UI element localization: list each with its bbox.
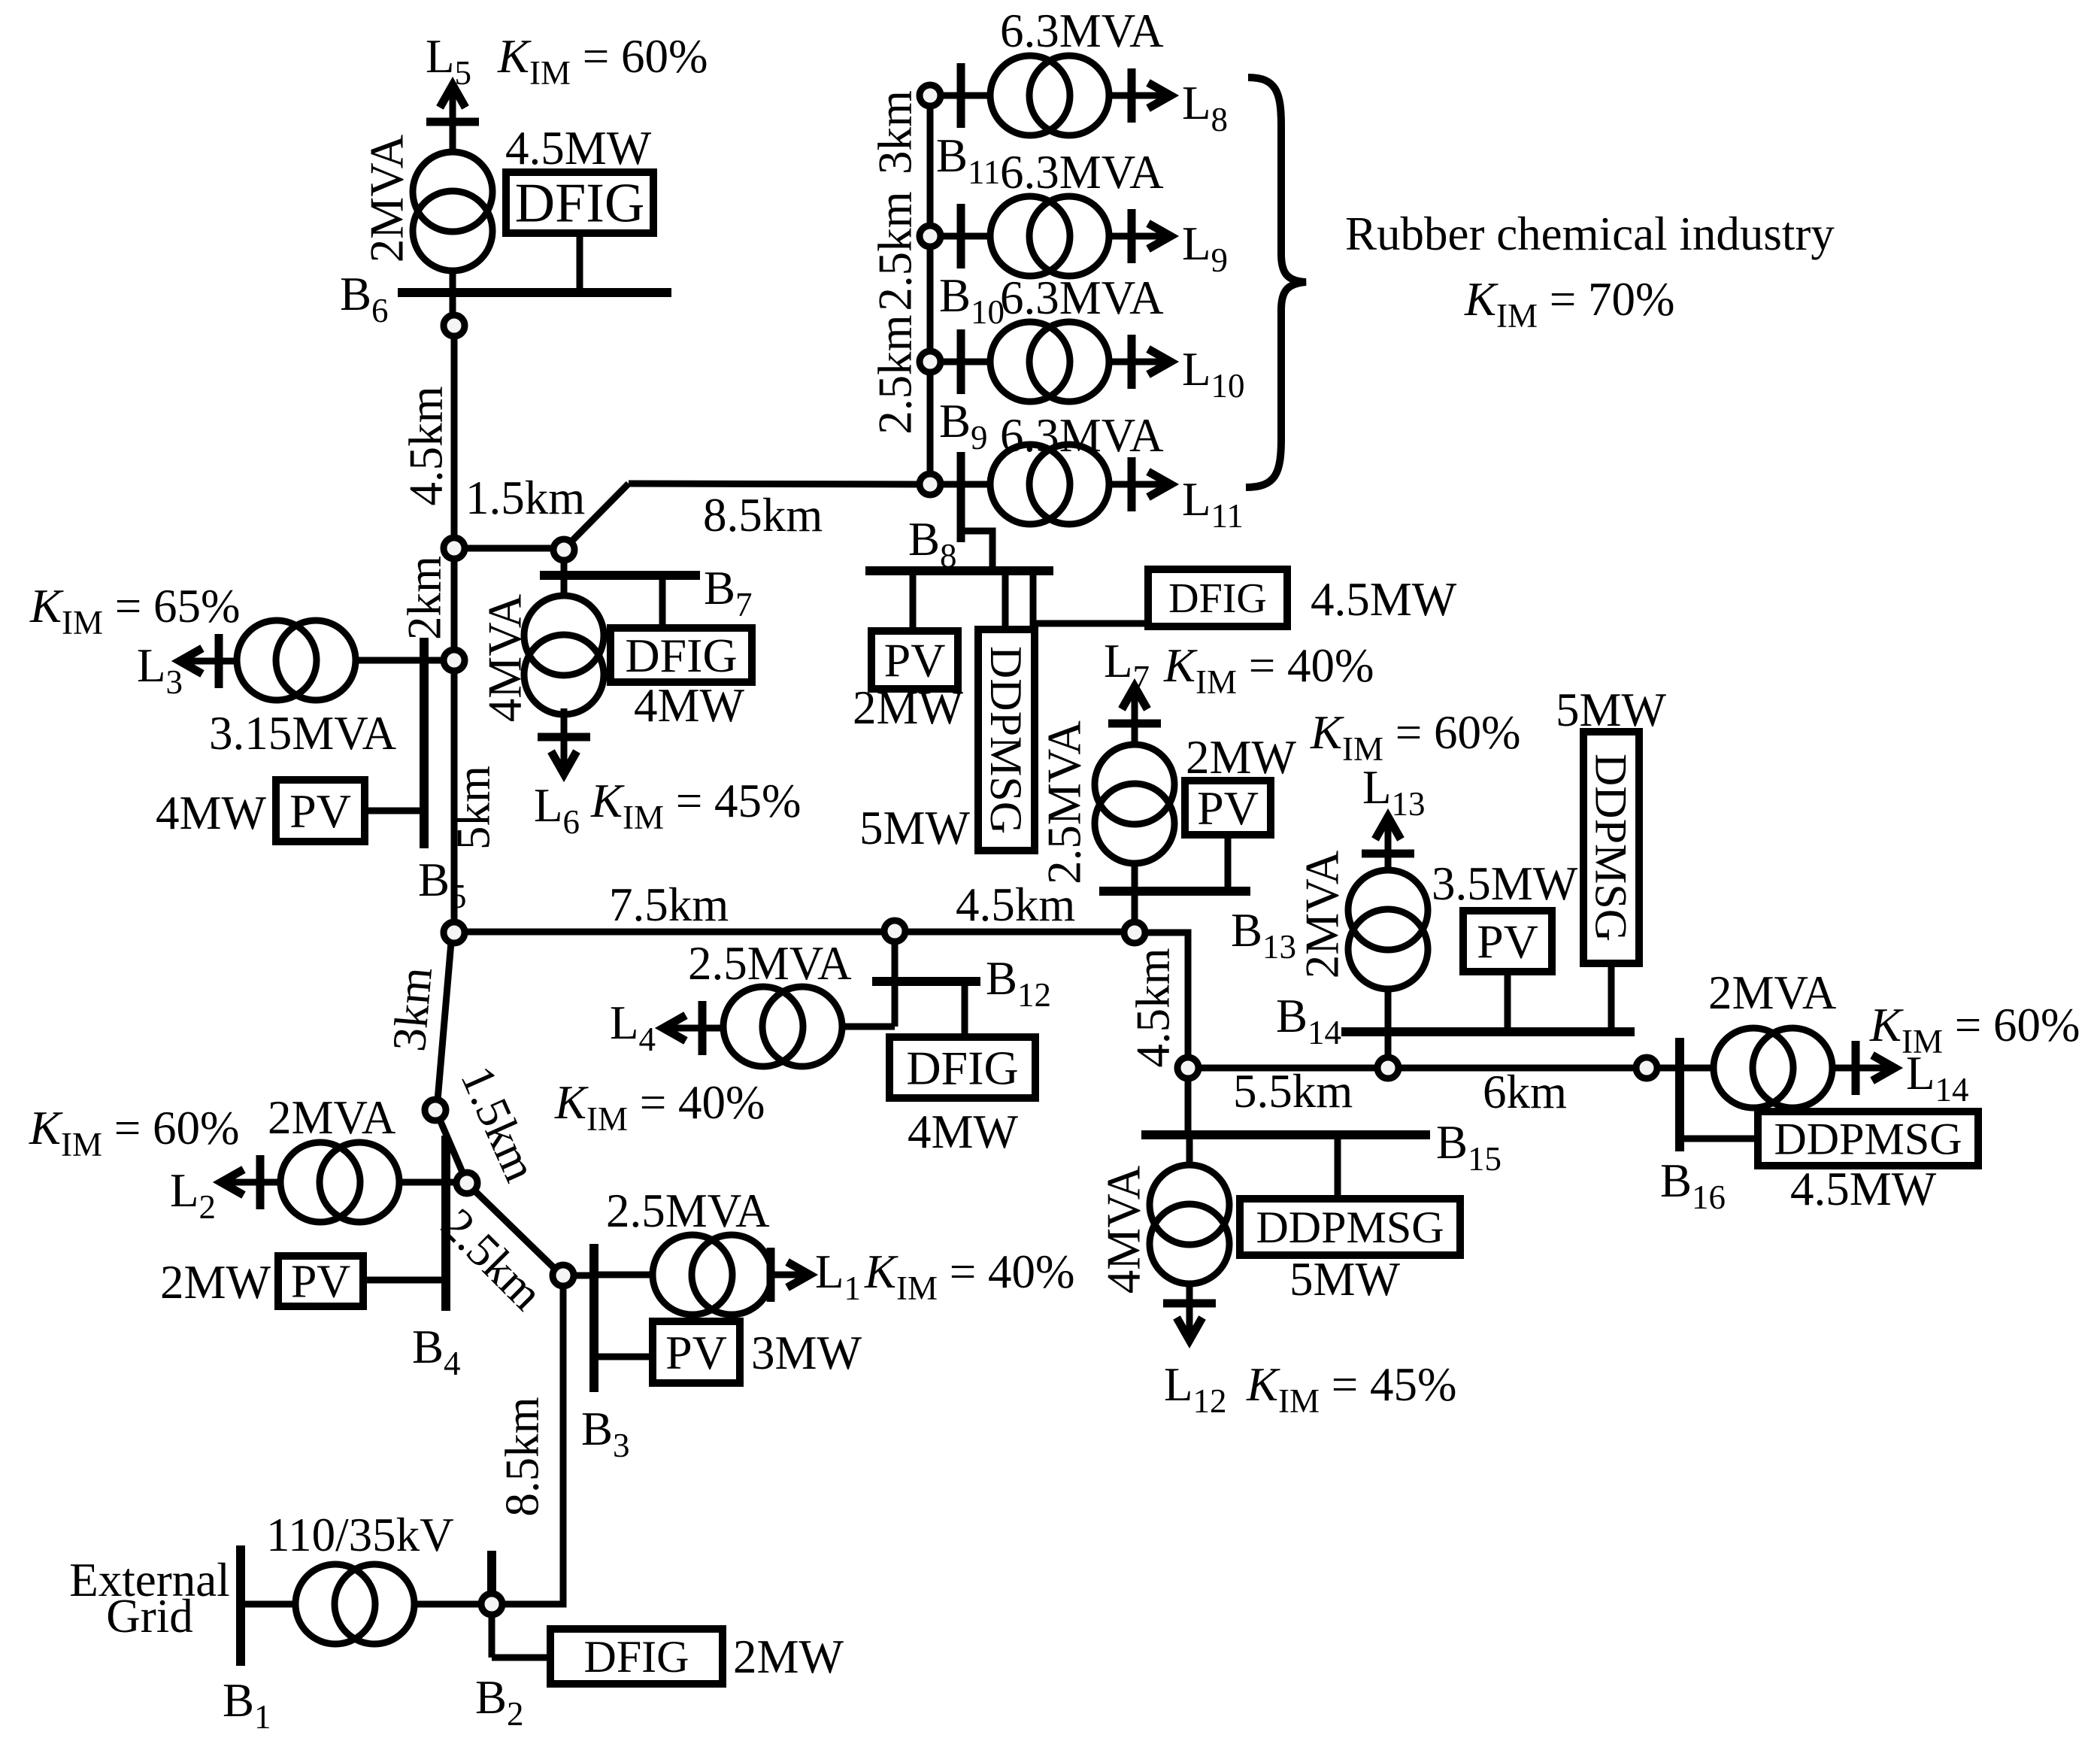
svg-text:L6: L6 — [534, 779, 580, 841]
transformer T15 4MVA — [1150, 1165, 1229, 1245]
bus tick row L8 — [957, 63, 965, 128]
generator DFIG box at B6 — [506, 172, 653, 233]
load L8 (arrow right) — [1108, 93, 1165, 99]
svg-text:B1: B1 — [223, 1674, 271, 1736]
node J6 — [1124, 922, 1145, 943]
wire B8 feeder segment 2.5km upper — [927, 247, 934, 351]
svg-text:DFIG: DFIG — [583, 1632, 689, 1682]
wire B5 bus to T3 — [355, 657, 420, 664]
load L7 (arrow up) — [1132, 690, 1138, 743]
bus B13 — [1099, 887, 1250, 896]
svg-text:B5: B5 — [418, 854, 467, 915]
svg-text:B14: B14 — [1276, 990, 1341, 1051]
node J4 — [884, 921, 905, 942]
node J6b at B4 — [456, 1172, 477, 1194]
transformer T-L8 6.3MVA — [990, 56, 1070, 135]
svg-text:8.5km: 8.5km — [495, 1397, 548, 1516]
transformer T16 2MVA (L14) — [1714, 1028, 1793, 1108]
svg-text:B9: B9 — [939, 395, 988, 456]
bus B15 — [1141, 1130, 1430, 1139]
svg-text:PV: PV — [291, 1257, 350, 1308]
load L1 (arrow right) — [771, 1272, 805, 1278]
generator DDPMSG box at B14 — [1583, 732, 1639, 963]
bus B3 — [589, 1244, 598, 1392]
wire J8 to B15 bus — [1185, 1078, 1192, 1135]
bus tick row L11 — [957, 452, 965, 542]
wire DFIG-to-B6 bus — [577, 233, 583, 293]
transformer T-L9 6.3MVA — [990, 196, 1070, 276]
bus B6 — [398, 288, 671, 297]
svg-text:6.3MVA: 6.3MVA — [1000, 146, 1164, 199]
svg-text:4.5km: 4.5km — [1126, 948, 1179, 1067]
svg-text:PV: PV — [884, 633, 946, 687]
svg-text:2MVA: 2MVA — [268, 1091, 396, 1144]
transformer T6 2MVA (B6-L5) — [413, 152, 492, 232]
node B16 junction — [1636, 1057, 1657, 1078]
svg-text:KIM = 40%: KIM = 40% — [1163, 639, 1374, 701]
generator DDPMSG box at B16 — [1758, 1112, 1978, 1166]
wire DDPMSG-to-B14 bus — [1608, 963, 1615, 1032]
svg-text:6km: 6km — [1483, 1066, 1567, 1118]
svg-text:L13: L13 — [1362, 761, 1425, 823]
node B11 feeder — [920, 85, 941, 106]
node J5 — [425, 1100, 446, 1121]
svg-text:L11: L11 — [1182, 473, 1244, 535]
node J1 — [444, 538, 465, 559]
svg-text:6.3MVA: 6.3MVA — [1000, 409, 1164, 462]
svg-text:Grid: Grid — [106, 1590, 192, 1642]
svg-text:4MW: 4MW — [908, 1106, 1019, 1158]
svg-text:3MW: 3MW — [751, 1327, 862, 1379]
svg-text:2MW: 2MW — [1186, 731, 1297, 784]
svg-text:L12: L12 — [1164, 1358, 1226, 1420]
wire T-L4 to J4 stem — [841, 1024, 895, 1030]
wire 2.5km diagonal (J6b-J7) — [474, 1191, 556, 1269]
bus B5 — [420, 638, 429, 848]
wire B3 bus to T-L1 — [594, 1272, 653, 1278]
svg-text:1.5km: 1.5km — [465, 472, 585, 524]
transformer T13 2.5MVA (L7) — [1095, 745, 1174, 824]
svg-text:110/35kV: 110/35kV — [266, 1509, 454, 1561]
wire feeder 2km (J1-J2) — [451, 559, 458, 650]
svg-text:KIM = 60%: KIM = 60% — [497, 30, 708, 92]
svg-text:L3: L3 — [137, 639, 183, 701]
wire B2 tap to DFIG — [492, 1655, 550, 1661]
transformer T3 3.15MVA (L3) — [237, 620, 317, 700]
transformer T-L10 6.3MVA — [990, 322, 1070, 402]
generator PV box at B13 — [1185, 781, 1271, 835]
svg-text:4.5MW: 4.5MW — [1790, 1163, 1937, 1215]
svg-text:B16: B16 — [1660, 1154, 1726, 1216]
wire DFIG-to-B7 bus — [659, 575, 666, 628]
wire J7 to B3 bus — [574, 1272, 594, 1279]
svg-text:PV: PV — [665, 1326, 727, 1379]
node J1b — [553, 539, 574, 560]
wire B15 bus to T15 — [1186, 1135, 1193, 1166]
generator PV box at B14 — [1463, 911, 1552, 972]
svg-text:2.5MVA: 2.5MVA — [606, 1184, 770, 1237]
svg-text:2MW: 2MW — [160, 1256, 271, 1309]
generator DFIG box at B7 — [611, 628, 752, 682]
svg-text:8.5km: 8.5km — [703, 489, 823, 541]
wire J4 to T-L4 level — [892, 942, 898, 1027]
wire J2 to B5 bus — [424, 657, 444, 664]
svg-text:DFIG: DFIG — [625, 629, 737, 682]
svg-text:Rubber chemical industry: Rubber chemical industry — [1345, 208, 1835, 260]
wire T13 to B13 bus — [1132, 863, 1138, 891]
wire node to T-L8 — [941, 93, 991, 99]
node L13 junction — [1377, 1057, 1398, 1078]
transformer T-L1 2.5MVA — [653, 1235, 732, 1315]
svg-text:L8: L8 — [1182, 77, 1228, 138]
wire DFIG-to-B12 bus — [962, 981, 968, 1037]
svg-text:DFIG: DFIG — [515, 173, 645, 235]
svg-text:3.5MW: 3.5MW — [1432, 857, 1578, 910]
wire B13 bus to node J6 — [1132, 891, 1138, 922]
wire J6 corner to J8 — [1145, 933, 1188, 1057]
transformer T-L4 2.5MVA — [723, 987, 803, 1066]
wire B8 feeder segment 3km — [927, 106, 934, 226]
wire PV-to-B14 bus — [1505, 972, 1511, 1032]
transformer T14 2MVA (L13) — [1348, 870, 1428, 950]
svg-text:6.3MVA: 6.3MVA — [1000, 5, 1164, 57]
wire feeder 5km (J2-J3) — [451, 671, 458, 922]
wire DDPMSG-to-B8 bus — [1002, 571, 1009, 629]
svg-text:PV: PV — [1477, 914, 1538, 968]
wire diagonal J1b to 8.5km line — [569, 484, 629, 544]
svg-text:2.5MVA: 2.5MVA — [688, 937, 852, 990]
bus B7 — [540, 571, 700, 580]
wire PV-to-B4 bus — [363, 1277, 446, 1284]
wire node to T-L11 — [941, 481, 991, 488]
brace rubber chemical industry — [1246, 77, 1306, 487]
wire 8.5km line to B8 feeder node — [629, 484, 920, 484]
wire 1.5km diagonal (J5-J6b) — [440, 1120, 463, 1174]
svg-text:5.5km: 5.5km — [1233, 1065, 1353, 1118]
svg-text:2MVA: 2MVA — [360, 134, 413, 262]
svg-text:2MVA: 2MVA — [1295, 850, 1348, 978]
wire feeder 4.5km (J0-J1) — [451, 336, 458, 538]
node J3 — [444, 922, 465, 943]
bus B12 — [872, 977, 980, 986]
wire DDPMSG-to-B15 bus — [1335, 1135, 1341, 1199]
transformer T7 4MVA (B7) — [524, 596, 604, 675]
svg-text:L10: L10 — [1182, 343, 1244, 405]
wire PV-to-B5 bus — [365, 808, 420, 814]
svg-text:KIM = 65%: KIM = 65% — [29, 580, 241, 642]
svg-text:B3: B3 — [581, 1403, 630, 1464]
node B9 feeder — [920, 351, 941, 372]
svg-text:KIM = 40%: KIM = 40% — [554, 1076, 765, 1138]
svg-text:3km: 3km — [383, 965, 442, 1054]
wire T6-to-B6 bus — [450, 271, 456, 293]
svg-text:7.5km: 7.5km — [609, 878, 729, 931]
generator DFIG box at B12 — [889, 1037, 1035, 1098]
svg-text:3km: 3km — [868, 90, 921, 174]
svg-text:L7: L7 — [1104, 635, 1150, 696]
wire 3km diagonal (J3-J5) — [438, 942, 451, 1100]
wire 5.5km line — [1198, 1065, 1377, 1072]
svg-text:B11: B11 — [936, 129, 1000, 191]
svg-text:DDPMSG: DDPMSG — [1256, 1203, 1444, 1252]
node B8 feeder — [920, 474, 941, 495]
wire B6 bus to node J0 — [450, 293, 456, 316]
svg-text:B4: B4 — [412, 1321, 461, 1382]
svg-text:B12: B12 — [986, 952, 1051, 1014]
node B10 feeder — [920, 226, 941, 247]
generator DFIG box at B2 — [550, 1629, 723, 1684]
svg-text:PV: PV — [289, 784, 351, 838]
svg-text:DFIG: DFIG — [906, 1041, 1018, 1094]
svg-text:L1: L1 — [815, 1245, 861, 1307]
svg-text:4MVA: 4MVA — [478, 593, 531, 722]
bus B2 tick — [487, 1551, 496, 1594]
svg-text:5MW: 5MW — [1289, 1253, 1401, 1306]
svg-text:DDPMSG: DDPMSG — [981, 646, 1031, 834]
wire T14 to node through B14 bus — [1385, 988, 1392, 1057]
svg-text:B6: B6 — [340, 268, 389, 329]
wire B8 feeder segment 2.5km lower — [927, 372, 934, 474]
wire B4 bus to T2 — [399, 1179, 446, 1186]
bus B1 — [236, 1545, 245, 1666]
load L5 (arrow up) — [450, 89, 456, 150]
node J7 at B3 — [553, 1265, 574, 1286]
svg-text:KIM = 60%: KIM = 60% — [1869, 999, 2080, 1060]
load L4 (arrow left) — [668, 1025, 724, 1032]
svg-text:PV: PV — [1197, 781, 1259, 835]
svg-text:KIM = 70%: KIM = 70% — [1464, 273, 1675, 335]
generator PV box at B8 — [871, 631, 958, 689]
svg-text:KIM = 45%: KIM = 45% — [590, 775, 802, 836]
wire J1b to B7 bus — [561, 560, 568, 575]
wire step node-B8 bus — [961, 531, 992, 571]
svg-text:KIM = 60%: KIM = 60% — [1310, 706, 1521, 768]
wire PV-to-B3 bus — [594, 1354, 653, 1360]
load L3 (arrow left) — [185, 658, 238, 665]
svg-text:B15: B15 — [1436, 1116, 1502, 1178]
wire PV-to-B13 bus — [1225, 835, 1232, 891]
svg-text:4.5MW: 4.5MW — [505, 122, 652, 174]
svg-text:B10: B10 — [939, 269, 1005, 331]
load L13 (arrow up) — [1385, 820, 1392, 872]
load L2 (arrow left) — [226, 1179, 280, 1186]
generator PV box at B3 — [653, 1321, 740, 1383]
wire B7 bus to T7 — [561, 575, 568, 597]
svg-text:2MVA: 2MVA — [1708, 966, 1837, 1019]
wire B8 bus to DFIG — [1033, 571, 1148, 623]
svg-text:DFIG: DFIG — [1168, 575, 1267, 622]
svg-text:L2: L2 — [170, 1164, 216, 1226]
svg-text:3.15MVA: 3.15MVA — [209, 707, 397, 760]
bus B4 — [441, 1136, 450, 1311]
svg-text:4MW: 4MW — [156, 787, 267, 839]
load L12 (arrow down) — [1186, 1285, 1193, 1336]
generator DDPMSG box at B15 — [1240, 1199, 1460, 1255]
svg-text:2.5km: 2.5km — [868, 314, 921, 434]
wire node to T-L10 — [941, 359, 991, 365]
load L11 (arrow right) — [1108, 481, 1165, 488]
wire 8.5km vertical (J7-B2) — [502, 1286, 563, 1604]
svg-text:KIM = 45%: KIM = 45% — [1246, 1358, 1457, 1420]
transformer T2 2MVA (L2) — [280, 1142, 360, 1222]
svg-text:5MW: 5MW — [859, 802, 971, 854]
svg-text:L4: L4 — [610, 996, 656, 1058]
wire J1-J1b 1.5km — [465, 545, 553, 552]
bus tick row L9 — [957, 204, 965, 268]
svg-text:KIM = 60%: KIM = 60% — [29, 1102, 240, 1163]
bus B8 — [865, 566, 1053, 575]
svg-text:B8: B8 — [908, 513, 957, 575]
svg-text:2MW: 2MW — [733, 1630, 844, 1683]
svg-text:6.3MVA: 6.3MVA — [1000, 271, 1164, 324]
wire node to T-L9 — [941, 233, 991, 240]
wire J6b to B4 bus — [399, 1179, 456, 1186]
node B2 — [481, 1594, 502, 1615]
bus B16 — [1675, 1038, 1684, 1151]
wire node to B16 bus and T16 — [1657, 1065, 1714, 1072]
svg-text:2km: 2km — [398, 556, 450, 640]
wire PV-to-B8 bus — [910, 571, 917, 631]
wire 7.5km line (J3-J4) — [465, 929, 884, 936]
wire B2 node to DFIG tap — [489, 1615, 495, 1658]
node J2 — [444, 650, 465, 671]
bus B14 — [1341, 1027, 1635, 1036]
svg-text:4.5km: 4.5km — [956, 878, 1075, 931]
load L6 (arrow down) — [561, 708, 568, 770]
load L10 (arrow right) — [1108, 359, 1165, 365]
svg-text:2MW: 2MW — [853, 681, 964, 734]
transformer T-L11 6.3MVA — [990, 444, 1070, 524]
svg-text:B13: B13 — [1231, 904, 1296, 966]
wire 4.5km line (J4-J6) — [905, 929, 1124, 936]
load L14 (arrow right) — [1831, 1065, 1889, 1072]
svg-text:B2: B2 — [475, 1671, 524, 1733]
transformer T1 110/35kV — [295, 1564, 375, 1644]
generator DFIG box at B8 — [1148, 569, 1287, 626]
bus tick row L10 — [957, 329, 965, 394]
svg-text:KIM = 40%: KIM = 40% — [864, 1245, 1075, 1307]
svg-text:4MW: 4MW — [634, 679, 745, 732]
svg-text:4.5km: 4.5km — [399, 386, 452, 505]
generator DDPMSG box at B8 — [978, 629, 1035, 851]
svg-text:L9: L9 — [1182, 217, 1228, 279]
generator PV box at B5 — [276, 780, 365, 842]
node J8 at B15 — [1177, 1057, 1198, 1078]
node J0 below B6 — [444, 315, 465, 336]
svg-text:2.5MVA: 2.5MVA — [1038, 720, 1090, 884]
wire B1 bus to T1 — [241, 1601, 296, 1608]
svg-text:DDPMSG: DDPMSG — [1774, 1114, 1962, 1163]
svg-text:DDPMSG: DDPMSG — [1586, 754, 1636, 942]
svg-text:B7: B7 — [704, 562, 753, 623]
wire T1 to B2 node — [414, 1601, 481, 1608]
svg-text:2.5km: 2.5km — [868, 191, 921, 311]
load L9 (arrow right) — [1108, 233, 1165, 240]
wire B16 bus to DDPMSG — [1680, 1136, 1758, 1142]
generator PV box at B4 — [278, 1256, 363, 1306]
svg-text:5km: 5km — [447, 766, 499, 850]
svg-text:4.5MW: 4.5MW — [1311, 573, 1457, 626]
svg-text:L5: L5 — [426, 30, 471, 92]
wire 6km line — [1398, 1065, 1636, 1072]
svg-text:4MVA: 4MVA — [1097, 1165, 1150, 1294]
